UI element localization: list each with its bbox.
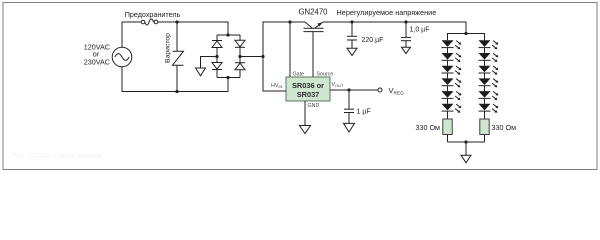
pin label GND xyxy=(308,103,320,109)
capacitor C1 220uF xyxy=(347,22,357,48)
pin label Vout xyxy=(332,82,345,88)
LED D10 xyxy=(442,104,462,113)
ground (C3) xyxy=(344,123,355,132)
LED D5 xyxy=(442,40,462,53)
svg-text:330 Ом: 330 Ом xyxy=(415,123,440,132)
LED D7 xyxy=(442,66,462,79)
svg-text:Нерегулируемое напряжение: Нерегулируемое напряжение xyxy=(337,8,437,17)
op-amp U1 SR036/SR037 regulator block xyxy=(286,77,330,101)
node: 1.0uF tap xyxy=(404,20,407,23)
bridge top bar xyxy=(217,34,240,36)
wire: varistor node to bridge top feed xyxy=(177,22,228,35)
LED D15 xyxy=(479,91,499,104)
node: HV riser junction xyxy=(261,55,264,58)
node: bridge bottom feed xyxy=(226,76,229,79)
LED D11 xyxy=(479,40,499,53)
node: gate drop on rail xyxy=(288,20,291,23)
svg-text:Варистор: Варистор xyxy=(164,33,171,63)
label 220 uF xyxy=(362,37,384,44)
wire: rail from FET to LED feed xyxy=(323,22,466,34)
node: bridge left (DC-) xyxy=(215,55,218,58)
ground (C1) xyxy=(347,48,357,55)
ground (C2) xyxy=(402,47,411,53)
svg-text:1 µF: 1 µF xyxy=(357,109,371,116)
label Нерегулируемое напряжение xyxy=(337,8,437,17)
wire: HVin pin xyxy=(263,57,286,92)
capacitor C2 1.0uF xyxy=(401,22,411,47)
diode D4 bridge right-bottom xyxy=(235,57,245,78)
wire: DC+ node to HV riser xyxy=(240,56,263,58)
label 120VAC or 230VAC xyxy=(84,43,110,67)
varistor RV1 xyxy=(173,22,184,92)
svg-text:220 µF: 220 µF xyxy=(362,37,384,44)
svg-text:SR036 or: SR036 or xyxy=(292,81,324,90)
ground (LED return) xyxy=(461,155,471,163)
wire: to ground xyxy=(465,142,467,155)
svg-text:Предохранитель: Предохранитель xyxy=(125,10,181,19)
wire: GND pin to ground xyxy=(304,101,306,125)
node: bridge right (DC+) xyxy=(238,55,241,58)
svg-text:GN2470: GN2470 xyxy=(298,8,328,17)
label SR036 or SR037 xyxy=(292,81,324,99)
svg-text:Source: Source xyxy=(317,72,334,78)
LED D14 xyxy=(479,78,499,91)
terminal VREG xyxy=(378,88,382,92)
svg-text:1,0 µF: 1,0 µF xyxy=(410,27,430,34)
label GN2470 xyxy=(298,8,328,17)
wire: fuse to varistor node xyxy=(158,21,177,23)
resistor R2 330 Ohm xyxy=(480,111,489,142)
diode D2 bridge right-top xyxy=(235,35,245,57)
wire: Vout to VREG terminal xyxy=(330,89,378,91)
watermark caption (faint) xyxy=(12,153,103,160)
bridge bottom bar xyxy=(217,77,240,79)
ground (U1 GND) xyxy=(300,126,311,134)
LED D9 xyxy=(442,91,462,104)
node: Vout / C3 junction xyxy=(347,88,350,91)
LED D13 xyxy=(479,66,499,79)
node: fuse/varistor junction xyxy=(175,20,178,23)
LED D6 xyxy=(442,53,462,66)
svg-text:330 Ом: 330 Ом xyxy=(492,123,517,132)
svg-text:Gate: Gate xyxy=(293,72,305,78)
label 1,0 uF xyxy=(410,27,430,34)
diode D1 bridge left-top xyxy=(212,35,222,57)
label VREG xyxy=(389,86,405,97)
LED D8 xyxy=(442,78,462,91)
label 330 Ohm left xyxy=(415,123,440,132)
svg-text:230VAC: 230VAC xyxy=(84,58,110,67)
svg-text:Рис. 12.006. Схема питания: Рис. 12.006. Схема питания xyxy=(12,153,103,160)
wire: rail dot down to Gate pin xyxy=(289,22,291,77)
wire: LED strings bottom bar xyxy=(448,141,485,143)
wire: LED top bar xyxy=(448,34,485,41)
transistor Q1 GN2470 xyxy=(304,22,324,32)
svg-text:HVIN: HVIN xyxy=(271,83,282,89)
svg-text:SR037: SR037 xyxy=(297,90,320,99)
diode D3 bridge left-bottom xyxy=(212,57,222,78)
pin label Source xyxy=(317,72,334,78)
wire: riser to top rail xyxy=(263,22,305,57)
node: LED feed junction xyxy=(464,32,467,35)
wire: source top to rail xyxy=(122,22,141,47)
svg-text:VOUT: VOUT xyxy=(332,82,345,88)
resistor R1 330 Ohm xyxy=(443,111,452,142)
LED D12 xyxy=(479,53,499,66)
node: 220uF tap xyxy=(350,20,353,23)
ground (bridge DC-) xyxy=(196,68,206,76)
wire: DC- to ground xyxy=(201,57,218,69)
node: bottom bar center xyxy=(464,140,467,143)
capacitor C3 1uF xyxy=(344,90,354,123)
label 330 Ohm right xyxy=(492,123,517,132)
wire: source bottom to bridge bottom xyxy=(122,67,228,92)
wire: FET gate lead to Source pin xyxy=(312,32,314,77)
pin label HVin xyxy=(271,83,282,89)
node: bridge top feed xyxy=(226,33,229,36)
node: varistor bottom junction xyxy=(175,90,178,93)
pin label Gate xyxy=(293,72,305,78)
svg-text:GND: GND xyxy=(308,103,320,109)
fuse F1 xyxy=(141,19,158,25)
LED D16 xyxy=(479,104,499,113)
AC source V1 xyxy=(112,47,132,67)
label Предохранитель xyxy=(125,10,181,19)
label 1 uF xyxy=(357,109,371,116)
label Варистор xyxy=(164,33,171,63)
